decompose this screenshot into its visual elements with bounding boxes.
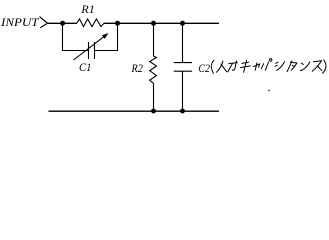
variable capacitor arrow C1	[74, 36, 105, 60]
capacitor C1 left plate	[88, 42, 90, 59]
junction dot E (R2 bottom)	[151, 109, 156, 114]
katakana SU	[313, 61, 321, 62]
capacitor C1 right plate	[94, 42, 96, 59]
junction dot C (R2 top)	[151, 21, 156, 26]
katakana TA	[287, 61, 292, 72]
katakana PA	[261, 64, 263, 69]
wire R2 top	[153, 23, 155, 56]
capacitor C2 bottom plate	[174, 70, 192, 72]
wire C1 parallel branch left	[63, 23, 89, 50]
svg-text:INPUT: INPUT	[0, 15, 40, 29]
svg-text:R2: R2	[131, 61, 143, 75]
speck artifact	[268, 90, 270, 92]
junction dot B (R1 right)	[115, 21, 120, 26]
wire C1 parallel branch right	[95, 23, 118, 50]
junction dot D (C2 top)	[180, 21, 185, 26]
svg-text:C1: C1	[79, 60, 92, 74]
katakana N	[301, 63, 303, 64]
wire C2 top	[182, 23, 184, 62]
resistor R2	[150, 56, 157, 83]
capacitor C2 top plate	[174, 62, 192, 64]
label open paren	[211, 60, 214, 74]
label close paren	[323, 60, 326, 73]
wire R2 bottom	[153, 83, 155, 111]
wire top rail left segment	[48, 22, 77, 24]
wire top rail right segment	[104, 22, 219, 24]
wire C2 bottom	[182, 71, 184, 111]
kanji NYU (enter)	[217, 61, 223, 72]
katakana small YA	[254, 64, 260, 68]
junction dot A (input node)	[60, 21, 65, 26]
input chevron arrow	[40, 17, 48, 28]
svg-text:R1: R1	[80, 2, 95, 16]
junction dot F (C2 bottom)	[180, 109, 185, 114]
kanji RYOKU (force)	[229, 63, 238, 64]
svg-text:C2: C2	[198, 61, 210, 75]
resistor R1	[77, 19, 104, 27]
katakana SHI	[276, 62, 278, 63]
katakana KI	[242, 62, 249, 63]
wire bottom rail	[49, 110, 220, 112]
